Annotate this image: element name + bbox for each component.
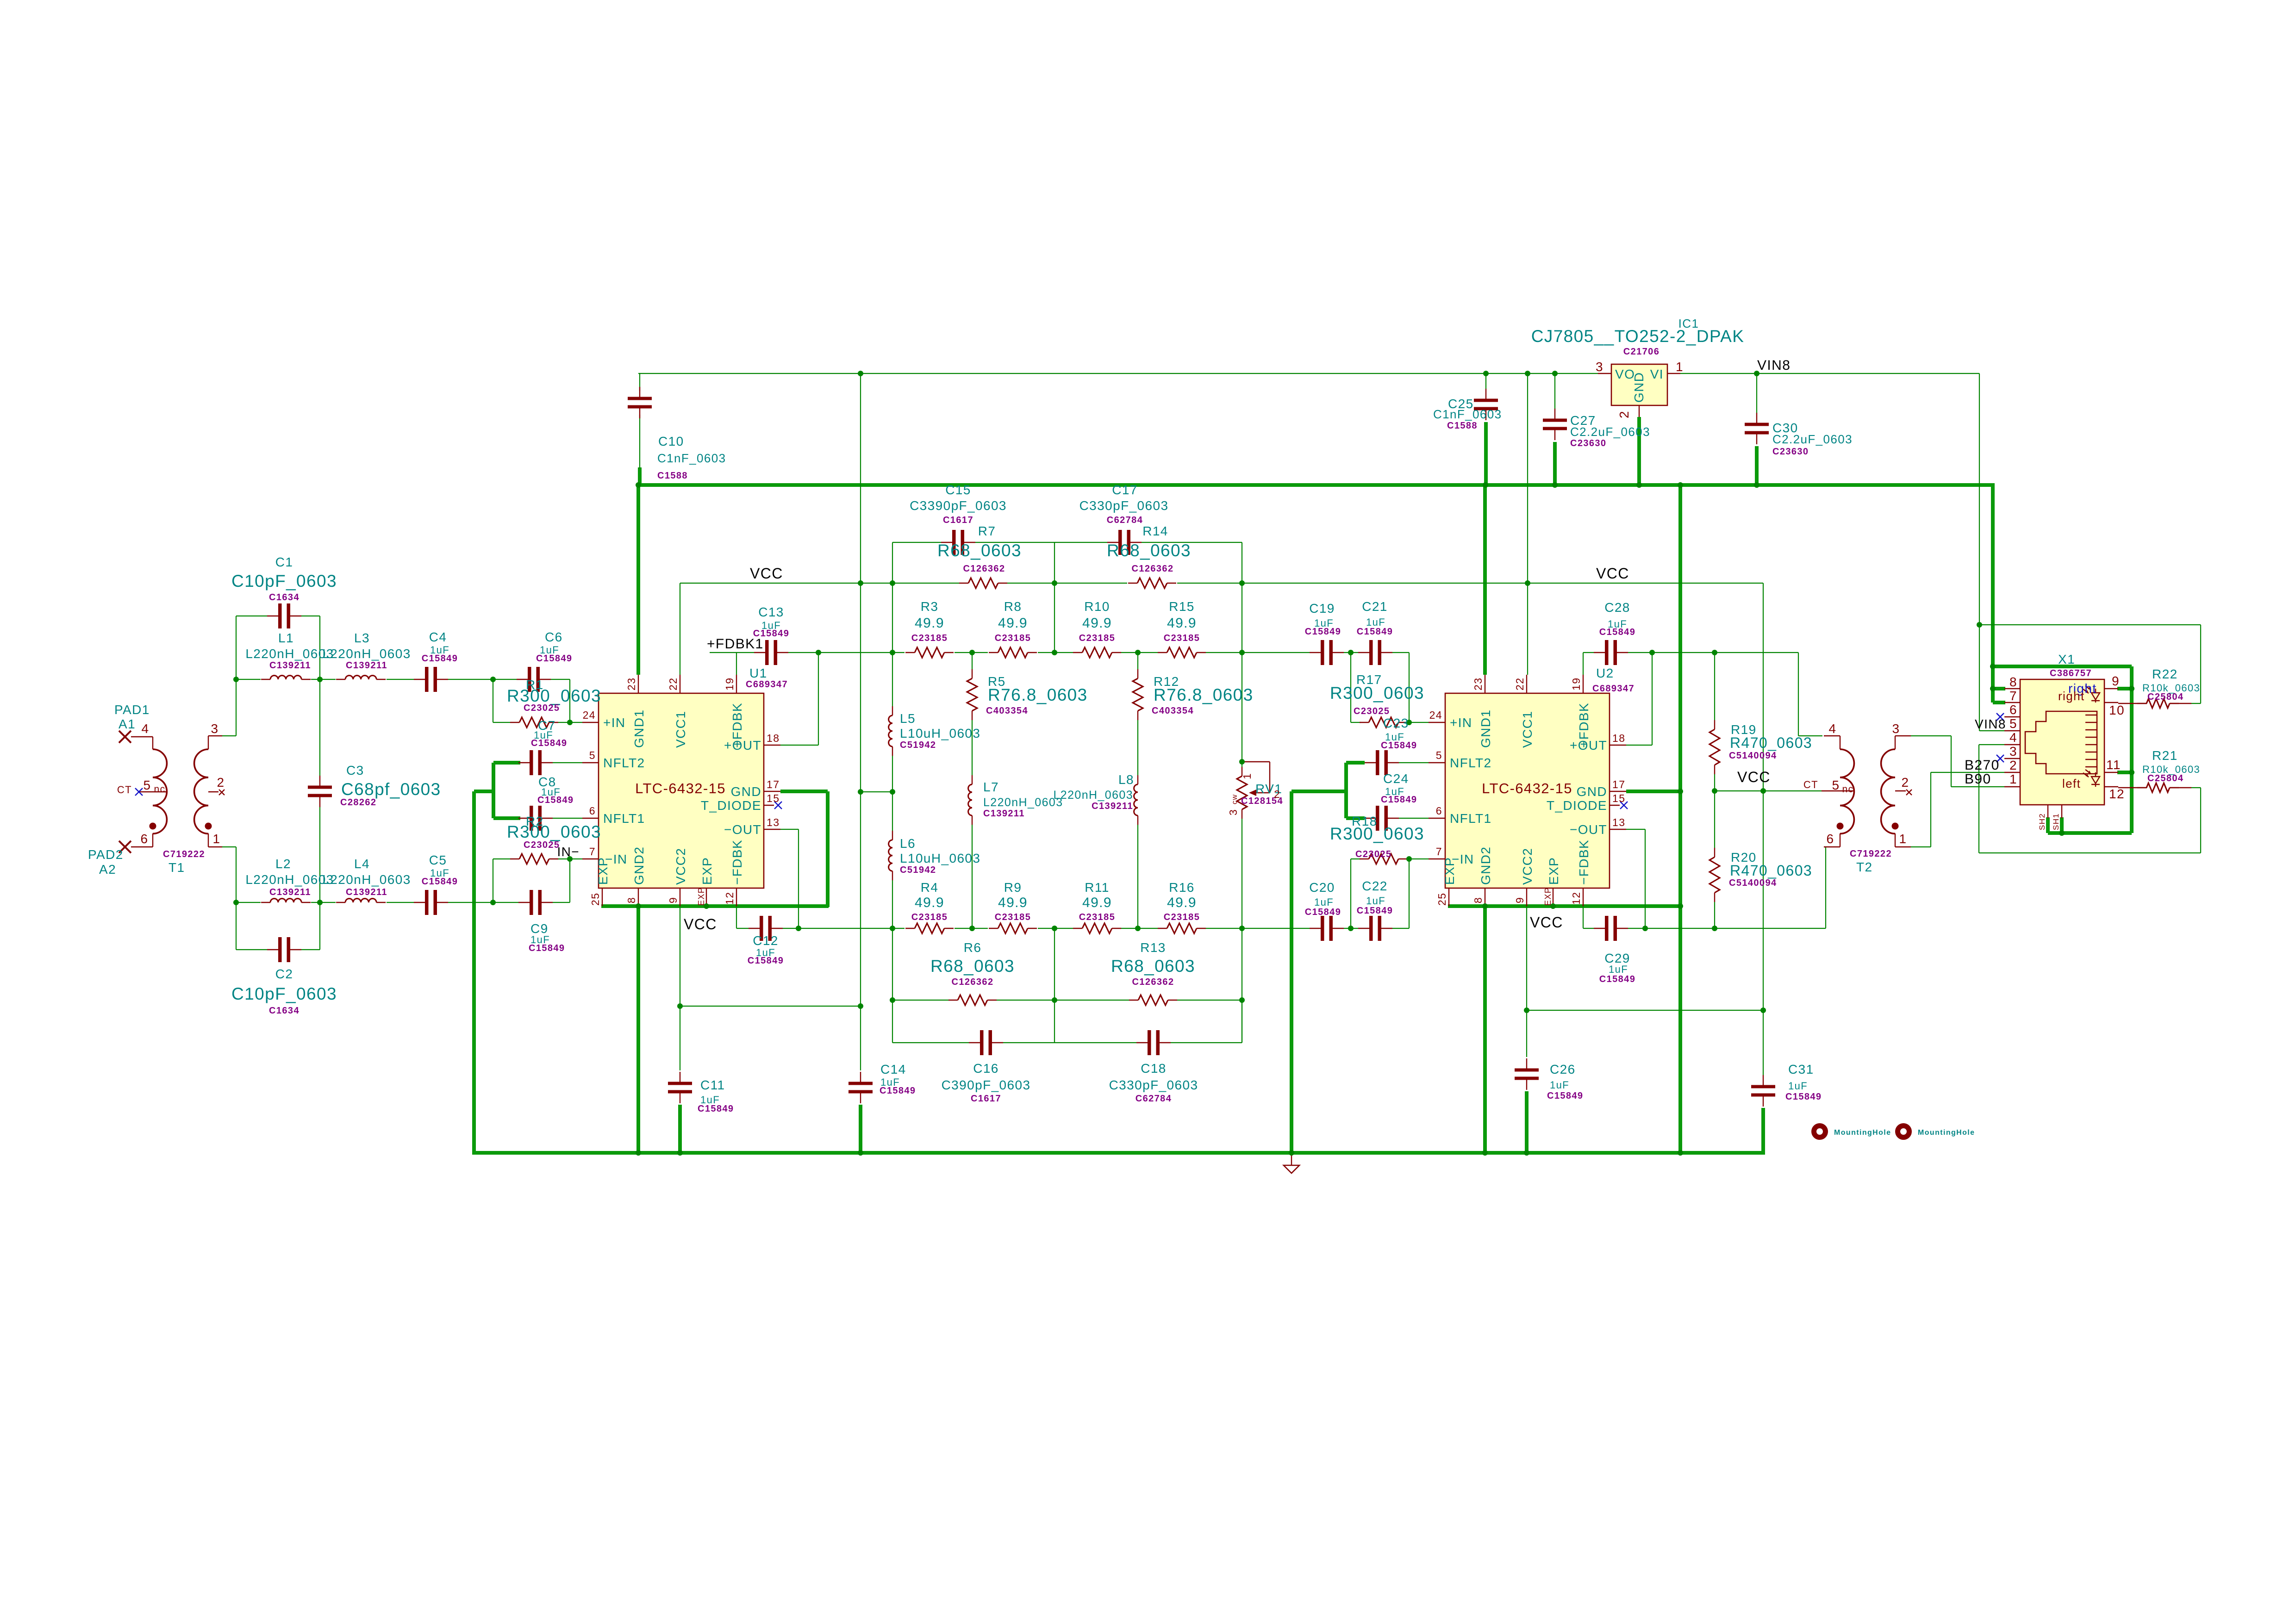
wire C28 row to T2 pin4 (1798, 653, 1799, 736)
wire C8 NFLT1 row (553, 818, 582, 819)
svg-text:R76.8_0603: R76.8_0603 (1154, 685, 1254, 704)
inductor L6 (892, 831, 893, 840)
inductor L5 (892, 706, 893, 715)
capacitor C7 (518, 762, 530, 763)
wire U2 -OUT riser (1626, 829, 1645, 830)
svg-text:C139211: C139211 (269, 660, 311, 671)
wire thick U1 GND2 column to bottom bus (636, 906, 640, 1153)
wire C1 loop (236, 616, 237, 679)
inductor L1 (261, 679, 270, 680)
svg-text:C51942: C51942 (900, 740, 936, 750)
svg-text:C15849: C15849 (1305, 627, 1341, 637)
svg-text:nc: nc (154, 784, 166, 795)
svg-text:IN−: IN− (557, 845, 580, 859)
svg-text:C330pF_0603: C330pF_0603 (1109, 1078, 1198, 1092)
svg-text:C23: C23 (1383, 716, 1409, 730)
svg-text:4: 4 (142, 721, 150, 736)
svg-text:C62784: C62784 (1136, 1094, 1172, 1104)
svg-text:C20: C20 (1309, 880, 1335, 895)
svg-text:13: 13 (1612, 816, 1625, 828)
wire R22 loop to VIN8 (2191, 703, 2201, 704)
capacitor C15 (941, 542, 953, 543)
svg-text:L220nH_0603: L220nH_0603 (245, 872, 334, 887)
svg-text:C10pF_0603: C10pF_0603 (231, 572, 337, 591)
svg-text:C386757: C386757 (2050, 668, 2092, 678)
svg-text:24: 24 (1429, 709, 1442, 721)
svg-text:C139211: C139211 (1092, 801, 1133, 811)
svg-text:A2: A2 (99, 862, 116, 877)
resistor R21 (2118, 787, 2147, 788)
wire L2/L4/C5/C9 row (236, 902, 261, 903)
svg-text:C23025: C23025 (524, 840, 560, 850)
no-connect T1 pin2 (219, 790, 225, 795)
svg-text:C25804: C25804 (2147, 692, 2184, 702)
no-connect X1 pin3 (1997, 755, 2004, 762)
svg-text:C15849: C15849 (1357, 906, 1393, 916)
svg-text:nc: nc (1842, 784, 1854, 795)
svg-text:VCC: VCC (750, 565, 783, 582)
resistor R13 (1129, 1000, 1138, 1001)
wire thick X1 gnd frame bottom (2048, 831, 2132, 835)
wire thick U1 GND pin riser (826, 791, 830, 907)
svg-text:C15849: C15849 (1305, 907, 1341, 917)
svg-text:MountingHole: MountingHole (1918, 1129, 1975, 1137)
capacitor C12 (749, 928, 760, 929)
svg-text:C15849: C15849 (1381, 740, 1417, 751)
svg-text:7: 7 (1436, 846, 1442, 858)
svg-text:C1nF_0603: C1nF_0603 (1433, 407, 1502, 421)
svg-text:C19: C19 (1309, 601, 1335, 616)
wire T1 pin3 riser (222, 735, 236, 736)
wire U1 VCC2 column (680, 906, 680, 1006)
svg-text:C1634: C1634 (269, 592, 299, 603)
wire R2 -IN row (493, 858, 510, 859)
svg-text:NFLT2: NFLT2 (1450, 756, 1492, 770)
svg-text:C23185: C23185 (911, 912, 948, 922)
wire VCC2 row to C31 column (1527, 1010, 1763, 1011)
svg-text:X1: X1 (2058, 652, 2075, 666)
svg-text:R470_0603: R470_0603 (1730, 862, 1812, 879)
wire C25 top lead (1485, 373, 1486, 389)
wire thick below C30 (1755, 446, 1759, 485)
wire R19/R20 bias column (1714, 653, 1715, 720)
svg-text:9: 9 (667, 897, 679, 903)
wire C6/R1 loop verticals (493, 679, 493, 722)
svg-text:C719222: C719222 (163, 849, 205, 859)
svg-text:−OUT: −OUT (1570, 822, 1607, 837)
svg-text:3: 3 (211, 721, 219, 736)
svg-text:C6: C6 (545, 630, 563, 644)
wire T2 pin3 to X1 pin1 (B90) (1911, 735, 1951, 736)
wire thick X1 gnd frame top (1993, 665, 2132, 668)
svg-text:LTC-6432-15: LTC-6432-15 (635, 780, 726, 796)
svg-text:C15849: C15849 (537, 795, 574, 805)
wire thick X1 pin7/8 stubs (1993, 687, 2005, 690)
svg-text:PAD2: PAD2 (88, 847, 124, 862)
svg-text:U2: U2 (1596, 666, 1614, 680)
svg-text:25: 25 (589, 893, 601, 906)
svg-text:C139211: C139211 (983, 808, 1025, 819)
svg-text:R68_0603: R68_0603 (1111, 957, 1195, 976)
svg-text:C15849: C15849 (422, 653, 458, 664)
svg-text:5: 5 (1436, 749, 1442, 761)
svg-text:17: 17 (1612, 778, 1625, 790)
capacitor C24 (1365, 818, 1376, 819)
svg-text:C23185: C23185 (1164, 633, 1200, 643)
svg-text:VCC1: VCC1 (674, 711, 688, 748)
resistor R22 (2118, 703, 2147, 704)
svg-text:1: 1 (213, 832, 221, 846)
capacitor C10 (639, 387, 640, 397)
svg-text:C126362: C126362 (963, 564, 1005, 574)
resistor R3 (905, 652, 915, 653)
capacitor C21 (1358, 652, 1370, 653)
capacitor C26 (1526, 1058, 1527, 1069)
svg-text:R8: R8 (1004, 599, 1022, 614)
wire thick X1 SH1/SH2 ties (2046, 817, 2050, 833)
svg-text:C139211: C139211 (346, 660, 387, 671)
svg-text:19: 19 (1570, 678, 1582, 690)
svg-text:C1nF_0603: C1nF_0603 (657, 451, 726, 465)
svg-text:CT: CT (1803, 779, 1818, 790)
svg-text:R4: R4 (921, 880, 939, 895)
svg-text:C330pF_0603: C330pF_0603 (1079, 498, 1169, 513)
wire C3 column (319, 679, 320, 776)
capacitor C3 (319, 776, 320, 786)
wire thick below C26 (1525, 1091, 1529, 1153)
wire U1 +OUT to +FDBK node (780, 745, 818, 746)
svg-text:1uF: 1uF (1314, 896, 1334, 908)
svg-text:C12: C12 (753, 933, 779, 948)
wire thick U2 GND pin 17 (1626, 790, 1680, 793)
wire R18 -IN row U2 (1351, 858, 1361, 859)
resistor R6 (948, 1000, 958, 1001)
svg-text:9: 9 (1514, 897, 1526, 903)
svg-text:VIN8: VIN8 (1757, 358, 1791, 373)
wire VCC jumper to L5/L6 midpoint (861, 791, 892, 792)
op-amp U2 LTC-6432-15 (1445, 693, 1610, 888)
wire VCC distribution row (680, 583, 959, 584)
svg-text:VCC1: VCC1 (1520, 711, 1535, 748)
svg-text:C15849: C15849 (531, 738, 567, 748)
svg-text:cw: cw (1231, 794, 1239, 804)
svg-text:6: 6 (1436, 805, 1442, 817)
connector X1 RJ45 (2020, 679, 2104, 805)
svg-text:C23025: C23025 (1354, 706, 1390, 716)
capacitor C19 (1310, 652, 1321, 653)
svg-text:49.9: 49.9 (1167, 895, 1197, 910)
capacitor C11 (680, 1072, 680, 1082)
svg-text:R76.8_0603: R76.8_0603 (988, 685, 1088, 704)
wire top VCC from C10 to IC1/VIN8 (638, 373, 1598, 374)
svg-text:−OUT: −OUT (724, 822, 761, 837)
capacitor C4 (414, 679, 425, 680)
svg-text:R68_0603: R68_0603 (937, 541, 1022, 560)
svg-text:1: 1 (1676, 360, 1684, 374)
svg-text:+FDBK: +FDBK (730, 703, 744, 748)
wire thick U1 GND pin 17 (780, 790, 828, 793)
svg-text:C24: C24 (1383, 771, 1409, 786)
svg-text:R300_0603: R300_0603 (1330, 824, 1424, 843)
svg-text:3: 3 (2009, 744, 2017, 759)
inductor L7 (972, 775, 973, 784)
svg-text:5: 5 (143, 778, 151, 792)
svg-text:GND2: GND2 (632, 846, 646, 885)
svg-text:1: 1 (1241, 773, 1253, 779)
svg-text:C23025: C23025 (524, 703, 560, 713)
capacitor C20 (1310, 928, 1321, 929)
svg-text:C1617: C1617 (971, 1094, 1001, 1104)
capacitor C23 (1365, 762, 1376, 763)
wire thick NFLT gnd column to bottom bus (472, 791, 476, 1154)
svg-text:R21: R21 (2152, 748, 2178, 763)
svg-text:R22: R22 (2152, 667, 2178, 681)
svg-text:VCC: VCC (1737, 769, 1771, 785)
svg-text:5: 5 (1832, 778, 1840, 792)
svg-text:C1617: C1617 (943, 515, 973, 525)
svg-text:R11: R11 (1085, 880, 1110, 895)
svg-text:C1634: C1634 (269, 1006, 299, 1016)
svg-text:VCC: VCC (684, 916, 717, 933)
svg-text:L220nH_0603: L220nH_0603 (322, 647, 411, 661)
resistor R14 (1128, 583, 1137, 584)
wire T1 pin1 riser (222, 846, 236, 847)
svg-text:C51942: C51942 (900, 865, 936, 875)
svg-text:NFLT1: NFLT1 (1450, 811, 1492, 826)
svg-text:6: 6 (2009, 703, 2017, 717)
transformer T2 (1840, 736, 1841, 749)
svg-text:L5: L5 (900, 711, 916, 726)
svg-text:1uF: 1uF (1788, 1080, 1808, 1092)
wire T2 pin1 to X1 pin2 (B270) (1911, 846, 1931, 847)
svg-text:C10pF_0603: C10pF_0603 (231, 984, 337, 1003)
wire thick below C14 (859, 1105, 862, 1153)
svg-text:6: 6 (589, 805, 596, 817)
wire C21 to R17 loop verticals (1350, 653, 1351, 722)
svg-text:C21: C21 (1362, 599, 1388, 614)
svg-text:1uF: 1uF (1609, 964, 1628, 975)
svg-text:6: 6 (1827, 832, 1834, 846)
svg-text:R300_0603: R300_0603 (1330, 684, 1424, 703)
wire thick X1 gnd frame right column (2130, 666, 2134, 833)
svg-text:L4: L4 (354, 857, 370, 871)
svg-text:+IN: +IN (603, 715, 626, 730)
wire U1 VCC1 riser (680, 583, 680, 675)
svg-text:C15849: C15849 (1599, 974, 1635, 984)
voltage regulator IC1 CJ7805 (1611, 364, 1667, 405)
svg-text:C15849: C15849 (1547, 1091, 1583, 1101)
svg-text:23: 23 (1472, 678, 1484, 690)
wire R4 row (799, 928, 905, 929)
inductor L4 (336, 902, 345, 903)
svg-text:+FDBK: +FDBK (1577, 703, 1591, 748)
svg-text:A1: A1 (119, 717, 136, 731)
svg-text:C28262: C28262 (340, 797, 376, 808)
svg-text:C25804: C25804 (2147, 773, 2184, 784)
svg-text:C15: C15 (945, 483, 971, 497)
svg-text:C2.2uF_0603: C2.2uF_0603 (1772, 432, 1853, 446)
resistor R19 (1714, 720, 1715, 729)
svg-text:C14: C14 (880, 1062, 906, 1076)
svg-text:C26: C26 (1550, 1062, 1576, 1076)
svg-text:VCC2: VCC2 (1520, 848, 1535, 885)
svg-text:49.9: 49.9 (915, 895, 944, 910)
svg-text:C11: C11 (700, 1078, 725, 1092)
svg-text:C15849: C15849 (536, 653, 572, 664)
wire C9/R2 loop verticals (493, 859, 493, 902)
svg-text:C5140094: C5140094 (1729, 878, 1777, 888)
wire R12/L8 branch (1137, 653, 1138, 669)
svg-text:GND: GND (731, 784, 761, 799)
svg-text:T_DIODE: T_DIODE (1547, 798, 1607, 813)
svg-text:C16: C16 (973, 1061, 999, 1076)
wire C7 NFLT2 row (553, 762, 582, 763)
svg-text:C15849: C15849 (880, 1086, 916, 1096)
svg-text:R6: R6 (964, 940, 982, 955)
svg-text:L6: L6 (900, 836, 916, 851)
svg-text:8: 8 (2009, 675, 2017, 689)
resistor R17 (1360, 722, 1369, 723)
wire GND bus bottom (thick) (472, 1151, 1765, 1155)
svg-text:5: 5 (589, 749, 596, 761)
svg-text:C1: C1 (275, 555, 293, 569)
wire thick below C25 (1484, 422, 1488, 485)
no-connect U1 T_DIODE (774, 802, 782, 809)
svg-text:49.9: 49.9 (1082, 616, 1112, 631)
svg-text:C23630: C23630 (1772, 447, 1809, 457)
svg-text:49.9: 49.9 (915, 616, 944, 631)
svg-text:GND1: GND1 (1479, 709, 1493, 748)
svg-text:1: 1 (2009, 772, 2017, 786)
svg-text:19: 19 (724, 678, 736, 690)
svg-text:PAD1: PAD1 (114, 703, 150, 717)
svg-text:C719222: C719222 (1850, 849, 1892, 859)
svg-text:B270: B270 (1965, 758, 2000, 773)
svg-text:3: 3 (1596, 360, 1603, 374)
svg-text:MountingHole: MountingHole (1834, 1129, 1891, 1137)
svg-text:SH2: SH2 (2038, 813, 2046, 830)
svg-text:12: 12 (1570, 892, 1582, 905)
svg-text:C23185: C23185 (1079, 912, 1115, 922)
svg-text:C13: C13 (758, 605, 784, 619)
svg-text:13: 13 (767, 816, 780, 828)
wire thick C7/C8 NFLT bracket (492, 763, 495, 818)
pad PAD1 A1 no-connect (119, 731, 131, 743)
svg-text:R68_0603: R68_0603 (930, 957, 1015, 976)
svg-text:EXP: EXP (697, 887, 706, 906)
wire C23 NFLT2 row U2 (1399, 762, 1429, 763)
svg-text:18: 18 (767, 732, 780, 744)
svg-text:R7: R7 (978, 524, 996, 538)
capacitor C8 (518, 818, 530, 819)
svg-text:L220nH_0603: L220nH_0603 (1054, 789, 1134, 802)
svg-text:C31: C31 (1788, 1062, 1814, 1076)
svg-text:C15849: C15849 (1599, 627, 1635, 637)
svg-text:24: 24 (583, 709, 596, 721)
svg-text:C23185: C23185 (995, 912, 1031, 922)
resistor R10 (1073, 652, 1082, 653)
resistor R1 (510, 722, 519, 723)
svg-text:R300_0603: R300_0603 (507, 822, 601, 841)
capacitor C25 (1485, 389, 1486, 399)
X1 RJ45 jack symbol (2025, 711, 2097, 774)
no-connect X1 pin6 (1997, 713, 2004, 721)
svg-text:R3: R3 (921, 599, 939, 614)
wire thick X1 gnd frame left column (1991, 485, 1995, 703)
svg-text:R14: R14 (1142, 524, 1168, 538)
svg-text:49.9: 49.9 (1167, 616, 1197, 631)
wire thick U1 GND1 column from top bus (636, 485, 640, 675)
svg-text:C4: C4 (429, 630, 447, 644)
capacitor C27 (1554, 409, 1555, 419)
svg-text:C15849: C15849 (529, 943, 565, 953)
wire rail x=2278 lower (1054, 928, 1055, 1043)
wire thick C23/C24 NFLT bracket U2 (1344, 763, 1348, 818)
svg-text:right: right (2058, 689, 2085, 703)
wire VCC row at T2 (1715, 790, 1822, 791)
svg-text:C139211: C139211 (269, 887, 311, 897)
wire C10 bottom run (639, 415, 640, 468)
svg-text:C23185: C23185 (911, 633, 948, 643)
svg-text:6: 6 (141, 832, 149, 846)
resistor R20 (1714, 848, 1715, 857)
LED left inside X1 (2095, 772, 2096, 777)
wire C31 upper lead run (1763, 1010, 1764, 1075)
no-connect U2 T_DIODE (1620, 802, 1628, 809)
svg-text:LTC-6432-15: LTC-6432-15 (1482, 780, 1572, 796)
svg-text:15: 15 (1612, 792, 1625, 804)
svg-text:R13: R13 (1140, 940, 1166, 955)
capacitor C2 (267, 949, 279, 950)
svg-text:R470_0603: R470_0603 (1730, 734, 1812, 751)
svg-text:L2: L2 (275, 857, 291, 871)
svg-text:3: 3 (1227, 809, 1239, 815)
potentiometer RV1 (1242, 767, 1242, 776)
svg-text:R9: R9 (1004, 880, 1022, 895)
no-connect T2 pin2 (1906, 790, 1912, 795)
svg-text:C3: C3 (346, 763, 364, 777)
wire thick U2 GND2 column to bottom bus (1483, 906, 1487, 1153)
wire thick below C31 (1761, 1108, 1765, 1154)
svg-text:C23630: C23630 (1570, 438, 1606, 448)
capacitor C22 (1358, 928, 1370, 929)
svg-text:8: 8 (625, 897, 637, 903)
op-amp U1 LTC-6432-15 (599, 693, 764, 888)
capacitor C6 (517, 679, 528, 680)
svg-text:10: 10 (2109, 703, 2125, 717)
mounting hole MH1 (1814, 1126, 1826, 1138)
svg-text:2: 2 (1902, 775, 1909, 790)
svg-text:R16: R16 (1169, 880, 1195, 895)
svg-text:NFLT2: NFLT2 (603, 756, 645, 770)
capacitor C16 (969, 1042, 980, 1043)
svg-text:C139211: C139211 (346, 887, 387, 897)
svg-text:VCC: VCC (1530, 914, 1563, 931)
wire R17 +IN row U2 (1351, 722, 1361, 723)
svg-text:22: 22 (1514, 678, 1526, 690)
capacitor C30 (1756, 413, 1757, 423)
svg-text:3: 3 (1892, 721, 1900, 736)
wire C10 top lead (639, 373, 640, 391)
svg-text:EXP: EXP (1442, 857, 1457, 885)
capacitor C18 (1136, 1042, 1148, 1043)
wire +FDBK1/R3 row (818, 652, 905, 653)
wire thick U2 GND1 column from top bus (1483, 485, 1487, 675)
wire thick U2 bottom EXP/GND wire (1448, 904, 1681, 908)
svg-text:GND2: GND2 (1479, 846, 1493, 885)
svg-text:18: 18 (1612, 732, 1625, 744)
svg-text:VCC: VCC (1596, 565, 1629, 582)
